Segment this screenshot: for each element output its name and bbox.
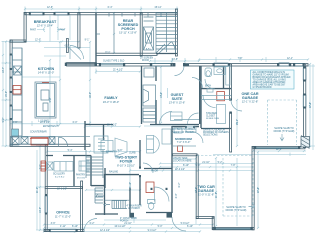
svg-text:15'-0": 15'-0" [5, 91, 8, 97]
svg-text:8'-10": 8'-10" [183, 164, 189, 167]
svg-text:21'-8": 21'-8" [215, 192, 218, 198]
svg-text:SELECTIONS: SELECTIONS [203, 135, 218, 137]
svg-text:9'-0": 9'-0" [49, 97, 52, 102]
svg-text:6'-4": 6'-4" [108, 6, 113, 9]
svg-text:PORCH: PORCH [121, 27, 135, 31]
svg-text:13'-8": 13'-8" [172, 58, 178, 61]
svg-text:4'-11": 4'-11" [60, 225, 66, 228]
svg-text:RAILING: RAILING [109, 171, 118, 174]
svg-text:6'-1": 6'-1" [65, 45, 70, 48]
svg-text:DOOR (TYP GAR): DOOR (TYP GAR) [226, 209, 247, 212]
svg-text:20'-6 1/2": 20'-6 1/2" [40, 121, 50, 124]
svg-text:9'-6": 9'-6" [118, 149, 123, 152]
svg-text:BATH: BATH [205, 85, 211, 88]
svg-text:9'-1": 9'-1" [85, 39, 90, 42]
svg-text:21'-2": 21'-2" [36, 187, 39, 193]
svg-text:12'-6": 12'-6" [47, 6, 53, 9]
svg-text:19'-3" X 18'-0": 19'-3" X 18'-0" [103, 100, 119, 104]
svg-text:PWDR: PWDR [151, 171, 158, 173]
svg-text:PANT: PANT [30, 29, 37, 32]
svg-text:SUITE: SUITE [172, 97, 183, 101]
svg-text:STACKED: STACKED [206, 112, 217, 115]
svg-text:14'-8" X 15'-0": 14'-8" X 15'-0" [38, 71, 54, 75]
svg-text:KITCHEN: KITCHEN [38, 67, 55, 71]
svg-text:OFFICE: OFFICE [56, 211, 70, 215]
svg-text:10'-4": 10'-4" [2, 67, 5, 73]
svg-text:8'-10": 8'-10" [72, 225, 78, 228]
svg-text:5'6 X 6'0: 5'6 X 6'0 [77, 177, 86, 179]
svg-text:12'-1" X 22'-8": 12'-1" X 22'-8" [242, 100, 258, 104]
svg-text:GYPSUM BOARD: GYPSUM BOARD [253, 86, 272, 89]
svg-text:10'-11 1/2": 10'-11 1/2" [114, 225, 125, 228]
svg-text:3'-0": 3'-0" [196, 164, 201, 167]
svg-text:ENTERTAIN HT: ENTERTAIN HT [43, 125, 60, 128]
svg-text:20'-2": 20'-2" [236, 119, 239, 125]
svg-text:6'-2": 6'-2" [90, 222, 95, 225]
svg-text:4'-6": 4'-6" [13, 121, 18, 124]
svg-text:AT PORCH: AT PORCH [128, 207, 140, 210]
svg-text:13'-8" X 13'-6": 13'-8" X 13'-6" [169, 101, 185, 105]
svg-text:3'-0": 3'-0" [175, 193, 178, 198]
svg-text:BREAKFAST: BREAKFAST [34, 20, 57, 24]
svg-text:COUNTER/BAR: COUNTER/BAR [30, 130, 47, 133]
svg-text:GARAGE: GARAGE [242, 96, 259, 100]
svg-text:4" MAX RISER: 4" MAX RISER [126, 204, 142, 207]
svg-text:12'-0": 12'-0" [35, 39, 41, 42]
svg-text:PANT: PANT [60, 29, 67, 32]
svg-text:10'-1 1/2": 10'-1 1/2" [57, 187, 67, 190]
svg-text:7'-0" X 6'-0": 7'-0" X 6'-0" [177, 140, 191, 144]
svg-text:12'-1": 12'-1" [276, 148, 282, 151]
svg-text:9'-0 1/2": 9'-0 1/2" [148, 229, 157, 232]
svg-text:12'-2": 12'-2" [195, 187, 198, 193]
svg-text:21'-4 1/2": 21'-4 1/2" [113, 69, 123, 72]
svg-text:7'-8": 7'-8" [231, 164, 236, 167]
svg-text:12'-4 1/2": 12'-4 1/2" [100, 229, 110, 232]
svg-text:21'-0" X 21'-8": 21'-0" X 21'-8" [198, 193, 214, 197]
svg-text:7'-2": 7'-2" [39, 164, 42, 169]
svg-text:21'-10": 21'-10" [202, 161, 210, 164]
svg-text:CURB: CURB [129, 152, 136, 154]
svg-text:GARAGE: GARAGE [198, 189, 215, 193]
svg-text:LOCATION HERE: LOCATION HERE [173, 159, 192, 162]
svg-text:12'-1": 12'-1" [287, 57, 293, 60]
svg-text:22'-0 1/2": 22'-0 1/2" [175, 168, 185, 171]
svg-text:21'-6 1/2": 21'-6 1/2" [107, 124, 117, 127]
svg-text:11'-7" X 13'-0": 11'-7" X 13'-0" [55, 214, 71, 218]
svg-text:5'-2": 5'-2" [218, 161, 223, 164]
svg-text:6'-0": 6'-0" [73, 121, 78, 124]
svg-text:B.PANTRY: B.PANTRY [106, 151, 118, 154]
svg-text:18'-0": 18'-0" [89, 92, 92, 98]
svg-text:15'-11" X 13'-8": 15'-11" X 13'-8" [119, 31, 137, 35]
svg-text:5'-4": 5'-4" [68, 149, 73, 152]
svg-text:6'-10": 6'-10" [187, 225, 193, 228]
svg-text:22'-8": 22'-8" [309, 102, 312, 108]
svg-text:PANTRY: PANTRY [76, 174, 86, 177]
svg-text:DOOR (TYP GAR): DOOR (TYP GAR) [274, 130, 295, 133]
svg-text:GLASS TYPE 1 SLD: GLASS TYPE 1 SLD [103, 59, 125, 62]
svg-text:A.F.C.: A.F.C. [146, 48, 152, 51]
svg-text:CRATE TO SLAB OR: CRATE TO SLAB OR [203, 128, 225, 131]
svg-text:DOOR: DOOR [142, 60, 149, 62]
svg-text:4" CONC. SLAB: 4" CONC. SLAB [120, 217, 137, 220]
svg-text:21'-8": 21'-8" [257, 187, 260, 193]
svg-text:FAMILY: FAMILY [104, 96, 118, 100]
svg-text:5'-0": 5'-0" [158, 225, 163, 228]
svg-text:13'-0": 13'-0" [39, 207, 42, 213]
svg-text:3'-9": 3'-9" [51, 222, 56, 225]
svg-text:8'-10": 8'-10" [129, 182, 132, 188]
svg-text:W/ BUILT-INS: W/ BUILT-INS [206, 118, 220, 120]
svg-text:12'-6" X 10'-4": 12'-6" X 10'-4" [37, 24, 53, 28]
svg-text:SCULLERY: SCULLERY [53, 174, 66, 176]
svg-text:VERIFY W/ OWNER: VERIFY W/ OWNER [173, 132, 194, 134]
svg-text:15'-11": 15'-11" [154, 6, 161, 9]
svg-text:6'-2 X 8'-2: 6'-2 X 8'-2 [55, 176, 65, 178]
svg-text:8'-10" X 21'-10": 8'-10" X 21'-10" [117, 164, 135, 168]
svg-text:6'-2": 6'-2" [178, 182, 181, 187]
svg-text:FOYER: FOYER [120, 160, 133, 164]
svg-text:5'-2": 5'-2" [2, 117, 5, 122]
svg-text:13'-6": 13'-6" [160, 92, 163, 98]
svg-text:7'-0": 7'-0" [238, 57, 243, 60]
svg-text:16'-0": 16'-0" [105, 51, 111, 53]
